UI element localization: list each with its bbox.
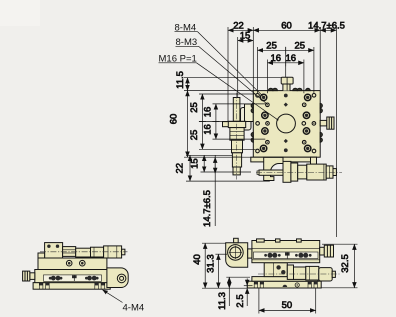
bottom micrometer ratchet end <box>326 166 333 178</box>
extension line x=320 (plate right) <box>319 27 321 91</box>
extension line x=237.7 <box>237 37 239 97</box>
svg-text:2.5: 2.5 <box>235 294 246 307</box>
dim 15 lower-left <box>203 155 205 172</box>
svg-text:11.5: 11.5 <box>175 71 186 89</box>
top plate <box>253 91 320 158</box>
dim 22 lower-left <box>189 155 191 181</box>
BL right bracket <box>107 268 128 288</box>
BR lower micrometer tip <box>332 271 335 277</box>
svg-text:25: 25 <box>189 102 200 113</box>
BR main top block <box>252 241 320 263</box>
BL top bracket block <box>45 243 63 258</box>
center column diamond upper <box>284 103 288 107</box>
M3 holes left <box>256 94 270 153</box>
BR lower slab <box>252 277 318 282</box>
lower stage strip step <box>311 157 317 164</box>
BL micrometer tip <box>122 249 125 255</box>
extension line x=228 <box>227 27 229 121</box>
BR lower micrometer body <box>294 267 306 279</box>
svg-text:15: 15 <box>240 31 251 42</box>
extension line y=90.6 (plate top) <box>184 90 253 92</box>
side lock knob right <box>320 120 327 126</box>
BR base screw ring <box>295 283 299 287</box>
svg-text:16: 16 <box>286 53 297 64</box>
M3 holes right <box>302 94 316 153</box>
BL left knob head <box>23 271 30 281</box>
BR base bolt marks left <box>254 282 263 288</box>
BL base plate <box>33 283 110 290</box>
extension y=243.2 left <box>202 242 226 244</box>
extension line x=253.3 (plate left) <box>252 27 254 91</box>
svg-text:25: 25 <box>189 130 200 141</box>
BL micrometer body <box>63 247 76 257</box>
svg-text:14.7±6.5: 14.7±6.5 <box>202 190 213 227</box>
dim 16 16 top <box>268 62 304 64</box>
BR right knob head <box>324 245 333 257</box>
dim 11.5 left <box>187 78 189 91</box>
top lock knob cap <box>281 77 293 84</box>
svg-text:15: 15 <box>190 158 201 169</box>
svg-text:16: 16 <box>203 107 214 118</box>
dim 22 top <box>228 29 253 31</box>
svg-text:50: 50 <box>282 300 293 311</box>
BR housing screw <box>234 238 239 242</box>
extension y=288.2 left <box>202 287 247 289</box>
BL right bracket ring <box>117 274 126 283</box>
BL slab rings <box>66 260 72 266</box>
dim 14.7±6.5 top <box>320 29 336 31</box>
bottom micrometer spindle <box>259 170 283 175</box>
svg-text:16: 16 <box>203 124 214 135</box>
BL base bolt marks left <box>39 283 49 289</box>
vertical micrometer end knob <box>233 167 240 175</box>
extension line y=172 <box>201 171 252 173</box>
dim 15 top <box>238 40 254 42</box>
dim 31.3 <box>217 254 219 288</box>
BR base bolt marks right <box>308 282 317 288</box>
BL middle slab <box>38 258 107 270</box>
BR round knob <box>228 245 244 261</box>
vertical micrometer spindle <box>233 98 240 122</box>
svg-text:31.3: 31.3 <box>206 254 217 273</box>
center column dot bottom <box>284 148 288 152</box>
BR lower micrometer end cap <box>319 268 332 281</box>
BR bearing dots right cluster <box>295 254 298 257</box>
bottom micrometer thimble <box>307 164 326 180</box>
bottom micrometer centerline <box>256 171 342 173</box>
extension y=277.2 left <box>226 276 250 278</box>
dim 32.5 <box>353 244 355 288</box>
M4 counterbored holes left column <box>260 94 268 151</box>
extension line y=157.2 (plate bottom) <box>184 156 253 158</box>
dim 11.3 <box>228 277 230 288</box>
left edge bumps <box>251 103 253 107</box>
svg-text:40: 40 <box>192 254 203 265</box>
dim 16 16 left <box>215 104 217 139</box>
center column dot top <box>284 94 288 98</box>
BR bearing dots left cluster <box>264 254 267 257</box>
extension y=244.2 right <box>322 243 358 245</box>
BL rail center tee <box>72 275 77 278</box>
dim 25 25 left <box>201 94 203 149</box>
BR base plate <box>247 281 321 288</box>
BL micrometer centerline <box>40 251 128 253</box>
extension line y=149.3 <box>199 148 256 150</box>
vertical micrometer flange <box>228 121 245 127</box>
faint light patch top-left <box>0 0 40 26</box>
center hole M16 <box>277 114 296 133</box>
dim 50 <box>259 309 316 311</box>
extension line x=303.9 <box>303 60 305 94</box>
extension line y=155.3 <box>186 154 232 156</box>
right edge bumps <box>320 103 322 107</box>
BR neck <box>248 249 252 258</box>
BR lower bearing dots <box>276 265 280 269</box>
svg-text:25: 25 <box>266 40 277 51</box>
BR lower micrometer centerline <box>258 273 341 275</box>
bottom micrometer body <box>298 165 307 179</box>
vertical micrometer centerline <box>236 93 238 180</box>
dim 14.7±6.5 lower-left <box>214 155 216 226</box>
svg-text:22: 22 <box>175 163 186 174</box>
svg-text:60: 60 <box>281 20 292 31</box>
bottom micrometer tip <box>333 169 336 176</box>
extension line y=139.1 <box>213 138 266 140</box>
BL left knob stem <box>30 273 35 280</box>
extension line y=181.1 <box>186 180 270 182</box>
M4 counterbored holes right column <box>303 94 311 151</box>
long extension line x=336.4 <box>335 27 337 237</box>
top edge bumps <box>268 88 273 90</box>
svg-text:16: 16 <box>271 53 282 64</box>
vertical micrometer thimble <box>232 153 241 167</box>
BL bearing dots right <box>85 277 88 280</box>
BR bearing band <box>254 252 319 259</box>
svg-text:11.3: 11.3 <box>217 292 228 310</box>
extension x=258.9 bottom <box>258 289 260 314</box>
bottom micrometer collar <box>283 161 291 182</box>
svg-text:60: 60 <box>169 114 180 125</box>
BL micrometer thimble <box>76 248 91 257</box>
BL top step <box>38 253 45 258</box>
dim 25 25 top <box>258 49 314 51</box>
svg-text:4-M4: 4-M4 <box>123 303 145 314</box>
BL micrometer sleeve <box>91 247 104 257</box>
BR top tabs <box>257 239 265 242</box>
BR base screw blob <box>283 285 288 287</box>
top lock knob stem <box>283 84 290 91</box>
extension line y=103.9 <box>213 103 266 105</box>
extension line y=77.7 (knob top) <box>184 77 281 79</box>
BR left housing <box>226 243 248 268</box>
svg-text:32.5: 32.5 <box>340 254 351 273</box>
dim 40 <box>204 243 206 288</box>
extension y=254.2 left <box>215 253 227 255</box>
extension line x=285.7 (center) <box>285 47 287 77</box>
dim 2.5 <box>246 285 248 288</box>
extension line x=267.5 <box>267 60 269 94</box>
center column diamond lower <box>284 139 288 143</box>
BL bearing band <box>44 275 102 281</box>
extension line y=121.5 (center) <box>199 121 253 123</box>
BL bearing dots left <box>49 277 52 280</box>
BR right knob stem <box>320 247 325 255</box>
BR lower micrometer collar <box>287 265 293 279</box>
BL base bolt marks right <box>95 283 105 289</box>
extension x=315.7 bottom <box>315 289 317 314</box>
BL rail block <box>35 270 109 283</box>
BR lower micrometer thimble <box>306 266 319 280</box>
vertical micrometer body <box>230 128 244 141</box>
vertical micrometer side screw <box>223 122 229 127</box>
extension line x=313.9 <box>313 47 315 93</box>
svg-text:14.7±6.5: 14.7±6.5 <box>308 20 345 31</box>
svg-text:25: 25 <box>295 40 306 51</box>
dim 60 top <box>253 29 320 31</box>
left bracket (behind vertical micrometer) <box>241 108 252 131</box>
BL micrometer ratchet <box>104 246 122 258</box>
extension line y=94 <box>199 93 256 95</box>
BR center tee <box>285 252 290 255</box>
vertical micrometer sleeve <box>232 140 243 153</box>
extension line x=257.5 <box>257 47 259 93</box>
extension y=287.8 right <box>318 287 358 289</box>
bottom micrometer bracket <box>264 157 283 180</box>
lower stage strip under plate <box>251 157 317 162</box>
dim 60 left <box>187 91 189 158</box>
BR lower carriage block <box>264 263 287 277</box>
